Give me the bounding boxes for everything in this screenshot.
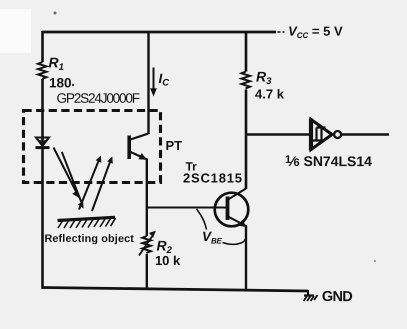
- LED (emitter diode): [36, 138, 49, 146]
- wire: base wire to Tr: [147, 206, 226, 208]
- resistor R2 (variable): [142, 236, 151, 253]
- VBE measurement curves: [197, 209, 207, 230]
- wire: inverter input: [246, 133, 310, 136]
- svg-text:GND: GND: [322, 289, 352, 305]
- svg-text:Reflecting object: Reflecting object: [44, 233, 134, 245]
- wire: inverter output: [342, 133, 390, 135]
- phototransistor PT: [127, 136, 131, 160]
- light arrows emitted: [54, 148, 77, 192]
- transistor Q1 2SC1815: [215, 193, 249, 227]
- specks: [54, 12, 57, 15]
- wire: middle vertical (Ic / PT collector): [147, 31, 149, 134]
- wire: left vertical branch: [41, 31, 44, 289]
- svg-text:VCC = 5 V: VCC = 5 V: [288, 24, 343, 41]
- svg-text:180: 180: [49, 75, 72, 90]
- light arrows reflected: [79, 161, 99, 210]
- Ic current arrow: [153, 68, 155, 91]
- wire: right vertical branch: [245, 31, 248, 189]
- wire: below R2 to ground rail: [146, 254, 148, 290]
- wire: top Vcc rail: [42, 31, 276, 34]
- svg-text:4.7 k: 4.7 k: [255, 87, 285, 102]
- dashed box GP2S24J0000F: [24, 111, 161, 183]
- ground GND symbol: [307, 290, 309, 296]
- svg-text:2SC1815: 2SC1815: [183, 170, 243, 185]
- inverter U1 (1/6 SN74LS14 Schmitt trigger): [311, 120, 332, 150]
- svg-text:GP2S24J0000F: GP2S24J0000F: [57, 91, 140, 106]
- resistor R3: [242, 72, 251, 89]
- svg-text:PT: PT: [166, 138, 183, 153]
- wire: Tr emitter to ground rail: [245, 225, 247, 292]
- svg-text:10 k: 10 k: [155, 253, 181, 268]
- reflecting object hatched surface: [58, 217, 116, 220]
- wire: PT emitter down to base node: [146, 159, 148, 237]
- wire: ground rail: [42, 288, 308, 292]
- resistor R1: [38, 62, 47, 79]
